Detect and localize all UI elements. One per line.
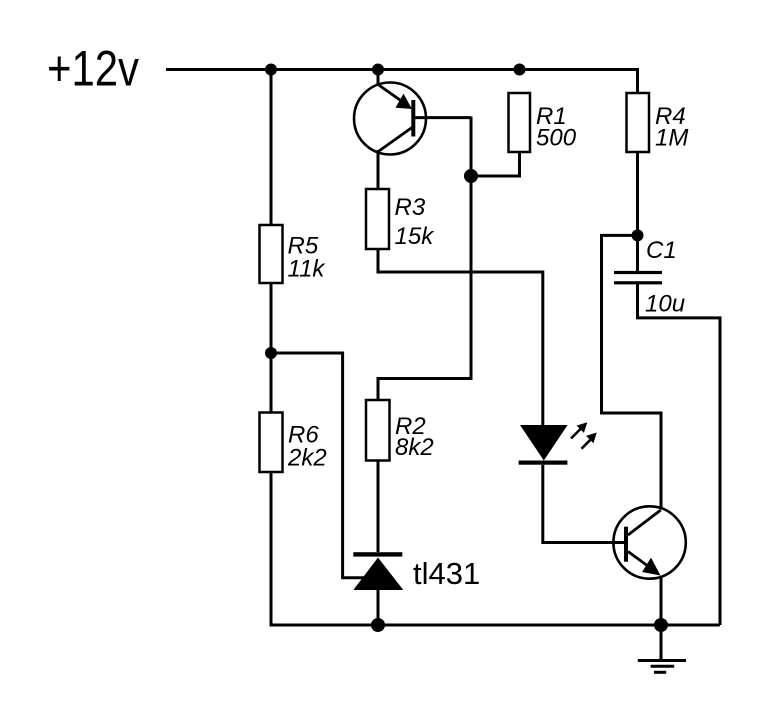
resistor R2 xyxy=(366,400,390,461)
wire R3 to LED xyxy=(378,249,543,425)
tl431 U1 xyxy=(353,552,403,590)
resistor R4 xyxy=(627,93,650,152)
wire +12v rail xyxy=(166,70,638,94)
node dot rail-Q1 xyxy=(372,64,384,76)
wire left branch top xyxy=(270,70,273,226)
resistor R6 xyxy=(260,413,283,473)
transistor Q1 (PNP) xyxy=(354,83,426,155)
wire tl431 anode to ground rail xyxy=(377,590,380,625)
wire LED cathode to Q2 base xyxy=(543,465,626,543)
wire R4 to C1 node xyxy=(636,152,639,271)
wire Q1 collector to R3 xyxy=(377,150,380,189)
wire C1 bottom to right outer xyxy=(638,284,721,625)
wire emitter stub Q1 xyxy=(377,70,380,86)
capacitor C1 xyxy=(614,271,662,285)
wire R5 to node xyxy=(270,283,273,413)
node dot tl431 ground xyxy=(371,618,385,632)
node dot rail-R5 xyxy=(265,64,277,76)
node dot Q2 emitter ground xyxy=(654,618,668,632)
wire Q1 base to node A xyxy=(415,116,471,119)
wire C1 node to Q2 collector xyxy=(602,235,662,509)
node dot R5-R6 xyxy=(265,347,277,359)
wire R6 to ground rail xyxy=(271,472,720,625)
resistor R3 xyxy=(366,189,389,249)
node dot C1 top xyxy=(632,229,644,241)
LED D1 xyxy=(519,425,568,465)
LED arrows xyxy=(571,422,597,449)
svg-text:10u: 10u xyxy=(645,291,685,318)
resistor R1 xyxy=(509,93,531,152)
ground xyxy=(638,661,686,673)
node dot node A xyxy=(464,169,478,183)
wire R2 bottom to tl431 xyxy=(377,461,380,553)
ground stub xyxy=(660,625,663,661)
svg-text:R41M: R41M xyxy=(655,103,688,152)
wire node to tl431 ref xyxy=(271,353,364,578)
wire Q2 emitter to ground rail xyxy=(660,577,663,625)
svg-text:+12v: +12v xyxy=(47,41,139,97)
resistor R5 xyxy=(260,225,283,283)
node dot rail-R1 xyxy=(514,64,526,76)
svg-text:C1: C1 xyxy=(646,237,677,264)
transistor Q2 (NPN) xyxy=(613,506,685,578)
wire R1 bottom to node A xyxy=(471,152,520,176)
svg-text:tl431: tl431 xyxy=(413,556,480,591)
wire node A vertical to R2 xyxy=(378,117,471,401)
